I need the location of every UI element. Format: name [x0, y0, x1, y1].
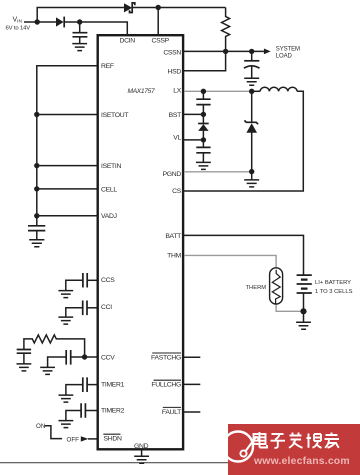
svg-text:SYSTEM: SYSTEM: [276, 47, 300, 53]
svg-text:BATT: BATT: [165, 233, 181, 240]
svg-text:THERM: THERM: [246, 285, 267, 291]
svg-text:CCI: CCI: [101, 304, 112, 311]
svg-text:CSSN: CSSN: [163, 49, 181, 56]
svg-text:LOAD: LOAD: [276, 53, 293, 59]
svg-text:LX: LX: [173, 88, 181, 95]
svg-text:6V to 14V: 6V to 14V: [6, 25, 31, 31]
svg-text:VADJ: VADJ: [101, 213, 117, 220]
svg-text:GND: GND: [134, 443, 149, 450]
svg-text:www.elecfans.com: www.elecfans.com: [253, 456, 350, 467]
svg-text:PGND: PGND: [163, 171, 182, 178]
svg-text:ON: ON: [36, 423, 45, 430]
svg-text:DCIN: DCIN: [120, 37, 136, 44]
svg-text:REF: REF: [101, 63, 114, 70]
svg-text:CSSP: CSSP: [152, 37, 170, 44]
svg-text:CCS: CCS: [101, 277, 115, 284]
svg-text:FULLCHG: FULLCHG: [151, 382, 181, 389]
svg-text:TIMER1: TIMER1: [101, 382, 125, 389]
svg-text:1 TO 3 CELLS: 1 TO 3 CELLS: [315, 289, 353, 295]
svg-text:MAX1757: MAX1757: [128, 88, 155, 95]
svg-text:FAULT: FAULT: [162, 409, 181, 416]
svg-text:HSD: HSD: [168, 68, 182, 75]
svg-text:OFF: OFF: [67, 436, 80, 443]
svg-text:ISETOUT: ISETOUT: [101, 112, 128, 119]
svg-text:CELL: CELL: [101, 186, 117, 193]
svg-text:TIMER2: TIMER2: [101, 407, 125, 414]
svg-text:SHDN: SHDN: [104, 436, 122, 443]
svg-text:CCV: CCV: [101, 354, 115, 361]
svg-text:VL: VL: [173, 135, 181, 142]
svg-text:CS: CS: [172, 188, 182, 195]
svg-text:LI+ BATTERY: LI+ BATTERY: [315, 280, 351, 286]
svg-text:ISETIN: ISETIN: [101, 163, 121, 170]
svg-text:FASTCHG: FASTCHG: [151, 355, 181, 362]
svg-text:THM: THM: [167, 253, 181, 260]
svg-text:BST: BST: [169, 112, 181, 119]
